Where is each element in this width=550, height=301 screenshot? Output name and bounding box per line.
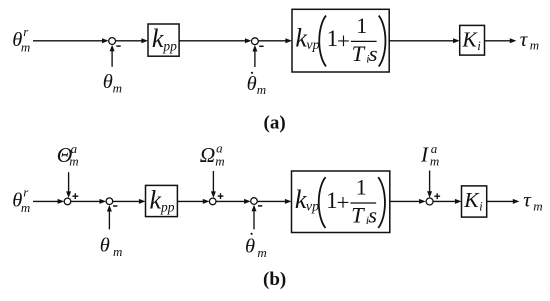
- node theta_m^r input label (a): [12, 24, 30, 55]
- summing junction S3b: [209, 198, 216, 205]
- arrowhead up into S2a: [252, 45, 257, 52]
- block k_vp(1+1/(T_i s)) (b): [292, 171, 390, 233]
- block K_i (a): [460, 25, 485, 55]
- svg-text:m: m: [113, 80, 122, 95]
- svg-text:Ω: Ω: [200, 143, 216, 167]
- svg-text:m: m: [21, 200, 30, 215]
- value label k_vp(1+1/(T_i s)) (b): [295, 175, 385, 229]
- node theta_m feedback label (b): [100, 234, 123, 258]
- svg-text:i: i: [477, 38, 481, 53]
- wire Omega_m^a down to S3b: [212, 171, 214, 192]
- plus sign at S3b: [218, 193, 224, 199]
- svg-text:θ: θ: [245, 236, 255, 258]
- svg-text:m: m: [257, 82, 266, 97]
- node theta_m feedback label (a): [103, 71, 122, 96]
- arrowhead down into S1b: [66, 191, 71, 198]
- node Omega_m^a label (b): [200, 141, 225, 169]
- wire S2a to PI box: [258, 40, 286, 42]
- arrowhead into S2a: [245, 38, 252, 43]
- svg-text:m: m: [533, 198, 542, 213]
- minus sign at S1a: [116, 45, 120, 47]
- svg-text:pp: pp: [162, 38, 177, 53]
- block k_pp (b): [146, 185, 178, 216]
- wire k_pp to summing junction S2a: [179, 40, 246, 42]
- summing junction S4b: [251, 198, 258, 205]
- node Theta_m^a label (b): [57, 141, 79, 169]
- svg-text:T: T: [352, 41, 366, 66]
- svg-text:m: m: [69, 154, 78, 169]
- wire S3b to summing junction S4b: [216, 200, 245, 202]
- summing junction S1b: [64, 198, 71, 205]
- arrowhead at output (b): [513, 199, 520, 204]
- arrowhead into S1a: [102, 38, 109, 43]
- svg-text:m: m: [21, 40, 30, 55]
- svg-text:(b): (b): [263, 269, 286, 290]
- wire feedback theta_m up to S2b: [108, 208, 110, 229]
- svg-text:θ: θ: [103, 71, 113, 93]
- svg-text:+: +: [337, 190, 350, 215]
- svg-text:I: I: [420, 143, 429, 167]
- svg-text:i: i: [479, 198, 483, 213]
- plus sign at S1b: [72, 193, 78, 199]
- wire k_pp to summing junction S3b: [177, 200, 204, 202]
- wire input to summing junction S1b: [33, 200, 59, 202]
- arrowhead into k_pp box (b): [139, 199, 146, 204]
- arrowhead into S5b: [419, 199, 426, 204]
- arrowhead into PI box (b): [285, 199, 292, 204]
- arrowhead into k_pp box (a): [141, 38, 148, 43]
- node I_m^a label (b): [420, 141, 439, 168]
- wire K_i to output tau_m (a): [485, 40, 512, 42]
- arrowhead into S1b: [58, 199, 65, 204]
- svg-text:θ: θ: [247, 73, 257, 95]
- node thetadot_m feedback label (b): [245, 233, 267, 260]
- svg-text:pp: pp: [160, 200, 175, 215]
- wire K_i to output tau_m (b): [487, 200, 514, 202]
- value label k_pp (b): [150, 186, 175, 215]
- svg-text:(a): (a): [264, 112, 286, 133]
- arrowhead into PI box (a): [285, 38, 292, 43]
- minus sign at S2a: [259, 45, 263, 47]
- summing junction S2b: [106, 198, 113, 205]
- wire Theta_m^a down to S1b: [68, 172, 70, 192]
- summing junction S2a: [252, 38, 259, 45]
- svg-text:s: s: [368, 203, 377, 228]
- svg-text:K: K: [461, 27, 478, 51]
- arrowhead into K_i box (a): [453, 38, 460, 43]
- node thetadot_m feedback label (a): [247, 72, 266, 97]
- arrowhead down into S5b: [427, 191, 432, 198]
- wire S2b to k_pp box: [113, 200, 141, 202]
- block k_vp(1+1/(T_i s)) (a): [292, 9, 389, 72]
- svg-text:m: m: [215, 153, 224, 168]
- wire feedback thetadot_m up to S2a: [254, 48, 256, 67]
- arrowhead up into S2b: [107, 205, 112, 212]
- arrowhead up into S4b: [252, 205, 257, 212]
- svg-text:vp: vp: [306, 199, 319, 214]
- svg-text:T: T: [351, 203, 365, 228]
- wire PI box to K_i box (a): [389, 40, 454, 42]
- node theta_m^r input label (b): [12, 185, 30, 216]
- svg-text:θ: θ: [100, 234, 110, 256]
- svg-text:m: m: [430, 154, 439, 169]
- node tau_m output label (a): [520, 27, 539, 52]
- minus sign at S2b: [113, 205, 117, 207]
- svg-text:m: m: [257, 245, 266, 260]
- summing junction S1a: [109, 38, 116, 45]
- svg-text:k: k: [150, 186, 162, 215]
- arrowhead down into S3b: [211, 191, 216, 198]
- block K_i (b): [462, 186, 487, 217]
- value label K_i (a): [461, 27, 481, 52]
- arrowhead at output (a): [510, 38, 517, 43]
- arrowhead into S2b: [100, 199, 107, 204]
- svg-text:vp: vp: [306, 38, 319, 53]
- value label k_pp (a): [152, 24, 177, 53]
- svg-text:K: K: [463, 188, 480, 212]
- arrowhead into S3b: [203, 199, 210, 204]
- wire feedback thetadot_m up to S4b: [253, 208, 255, 229]
- svg-text:m: m: [113, 244, 122, 259]
- node tau_m output label (b): [523, 187, 542, 213]
- block k_pp (a): [148, 24, 179, 56]
- wire input to summing junction S1a: [33, 40, 104, 42]
- wire PI box to summing junction S5b: [390, 200, 421, 202]
- arrowhead up into S1a: [110, 45, 115, 52]
- summing junction S5b: [426, 198, 433, 205]
- svg-text:1: 1: [356, 175, 367, 200]
- value label K_i (b): [463, 188, 483, 213]
- arrowhead into S4b: [244, 199, 251, 204]
- svg-text:k: k: [152, 24, 164, 53]
- value label k_vp(1+1/(T_i s)) (a): [295, 13, 385, 67]
- wire S1a to k_pp box: [116, 40, 143, 42]
- arrowhead into K_i box (b): [455, 199, 462, 204]
- plus sign at S5b: [434, 193, 440, 199]
- wire S5b to K_i box: [433, 200, 456, 202]
- svg-text:1: 1: [356, 13, 367, 38]
- svg-text:s: s: [369, 41, 378, 66]
- wire S1b to summing junction S2b: [71, 200, 101, 202]
- wire S4b to PI box: [257, 200, 286, 202]
- wire feedback theta_m up to S1a: [111, 48, 113, 67]
- svg-text:+: +: [337, 29, 350, 54]
- minus sign at S4b: [258, 205, 262, 207]
- svg-text:m: m: [530, 37, 539, 52]
- wire I_m^a down to S5b: [429, 171, 431, 192]
